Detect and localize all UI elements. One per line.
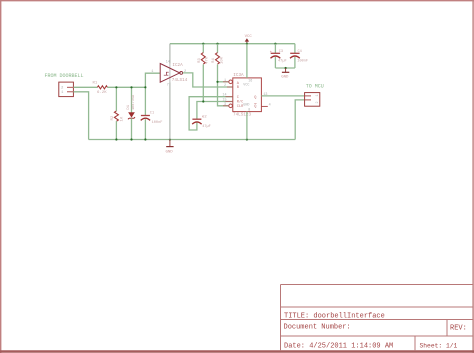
svg-text:REV:: REV:: [450, 325, 467, 333]
svg-text:Date: 4/25/2011 1:14:09 AM: Date: 4/25/2011 1:14:09 AM: [284, 342, 393, 350]
svg-text:D1: D1: [127, 104, 131, 109]
svg-text:Q: Q: [254, 105, 256, 109]
node VCC rail junctions: [202, 43, 276, 45]
svg-text:C1: C1: [150, 111, 154, 115]
svg-text:C3: C3: [279, 50, 283, 54]
wire R4 node to A input and CLR: [218, 81, 229, 83]
svg-text:C2: C2: [202, 115, 206, 119]
svg-text:Sheet: 1/1: Sheet: 1/1: [420, 342, 458, 349]
capacitor C3: [270, 44, 287, 68]
svg-text:1: 1: [316, 94, 320, 96]
svg-text:GND: GND: [281, 76, 289, 80]
svg-text:IC3A: IC3A: [233, 73, 244, 78]
svg-text:2: 2: [184, 70, 186, 74]
node cap ground junction: [285, 67, 287, 69]
node R/C junction: [202, 100, 204, 102]
connector TO MCU: [305, 93, 320, 107]
wire R1 to input node rail: [107, 86, 145, 88]
resistor R3: [198, 44, 210, 102]
VCC rail wire: [170, 43, 295, 45]
wire R/C pin to C2 top: [197, 102, 233, 120]
svg-text:FROM DOORBELL: FROM DOORBELL: [45, 73, 84, 79]
wire riser to inverter input: [145, 73, 160, 87]
svg-text:14: 14: [166, 61, 170, 65]
ground symbol at caps: [281, 68, 289, 80]
pin stubs IC3: [223, 82, 268, 106]
svg-text:4: 4: [269, 104, 271, 108]
svg-text:7: 7: [167, 84, 169, 88]
svg-text:R2: R2: [111, 115, 115, 120]
node A/CLR junction: [216, 81, 218, 83]
wire ground rail up to TO MCU pin1: [295, 100, 304, 140]
resistor R4: [212, 44, 224, 82]
capacitor C2: [192, 115, 211, 129]
svg-text:+: +: [270, 51, 272, 55]
wire IC3 GND pin to ground rail: [246, 112, 248, 140]
svg-text:8: 8: [248, 109, 250, 113]
VCC supply symbol: [245, 35, 253, 44]
one-shot IC3A 74LS123: [223, 73, 271, 117]
wire C pin loop to C2 bottom: [189, 97, 233, 130]
title block text: [284, 312, 467, 350]
svg-text:IC2A: IC2A: [172, 63, 183, 68]
svg-text:R4: R4: [212, 58, 216, 63]
ground symbol at rail: [166, 140, 174, 155]
svg-text:R3: R3: [198, 58, 202, 63]
svg-text:GND: GND: [243, 103, 249, 107]
node input rail junctions: [115, 86, 146, 88]
svg-text:Q: Q: [254, 96, 256, 100]
svg-text:TO MCU: TO MCU: [306, 83, 324, 89]
svg-text:2: 2: [316, 101, 320, 103]
resistor R2: [111, 87, 125, 139]
svg-text:6.2K: 6.2K: [97, 91, 107, 95]
svg-text:VCC: VCC: [245, 35, 253, 39]
connector J1 FROM DOORBELL: [59, 82, 74, 97]
schmitt inverter IC2A 74LS14: [151, 44, 187, 140]
svg-text:47K: 47K: [206, 56, 210, 64]
svg-text:74LS14: 74LS14: [172, 78, 188, 83]
diode D1 zener: [127, 87, 136, 139]
svg-text:R1: R1: [93, 81, 98, 85]
pin stub Q-bar unconnected: [261, 105, 267, 107]
svg-text:1N4734A: 1N4734A: [132, 94, 136, 110]
svg-text:TITLE: doorbellInterface: TITLE: doorbellInterface: [284, 312, 385, 320]
svg-text:10K: 10K: [220, 56, 224, 64]
wire pin1 down to ground rail: [73, 92, 88, 140]
wire IC3 VCC pin to rail: [246, 44, 248, 78]
svg-text:16: 16: [248, 79, 252, 83]
wire C3 C4 bottoms join: [275, 67, 295, 69]
svg-text:GND: GND: [166, 150, 174, 154]
svg-text:2: 2: [224, 84, 226, 88]
capacitor C1: [141, 87, 163, 139]
svg-text:Document Number:: Document Number:: [284, 323, 351, 331]
svg-text:VCC: VCC: [243, 84, 249, 88]
wire Q output to TO MCU: [261, 95, 304, 97]
svg-text:R/C: R/C: [237, 99, 243, 104]
svg-text:47µF: 47µF: [278, 60, 287, 64]
svg-text:74LS123: 74LS123: [233, 112, 251, 117]
svg-text:C4: C4: [298, 50, 302, 54]
svg-text:100nF: 100nF: [297, 60, 308, 64]
node ground rail junctions: [115, 138, 248, 140]
svg-text:1: 1: [151, 70, 153, 74]
svg-text:100nF: 100nF: [152, 121, 163, 125]
svg-text:47µF: 47µF: [202, 125, 211, 129]
wire inverter output to one-shot B input: [183, 73, 233, 87]
capacitor C4: [290, 44, 308, 68]
title block: [281, 285, 474, 352]
wire pin2 to R1: [73, 86, 97, 88]
resistor R1: [93, 81, 108, 95]
svg-text:1K: 1K: [121, 116, 125, 121]
wire ground rail: [89, 139, 296, 141]
